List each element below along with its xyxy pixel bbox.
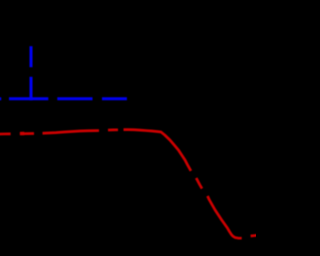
dash 6 (mid descent) <box>196 178 202 189</box>
blue dashed horizontal marker line <box>0 97 127 100</box>
dash 3 <box>43 131 100 134</box>
dash 8 (bottom right) <box>251 234 257 237</box>
dash 2 <box>20 132 34 135</box>
red dashed response curve <box>0 130 257 239</box>
dash 2 thick start blob <box>20 132 24 136</box>
dash 7 (lower descent + bottom flat) <box>208 196 242 238</box>
blue dashed vertical marker line <box>30 46 33 100</box>
dash 1 <box>0 133 11 136</box>
dash 4 <box>108 128 118 131</box>
dash 5 (plateau shoulder + upper descent) <box>124 130 191 171</box>
